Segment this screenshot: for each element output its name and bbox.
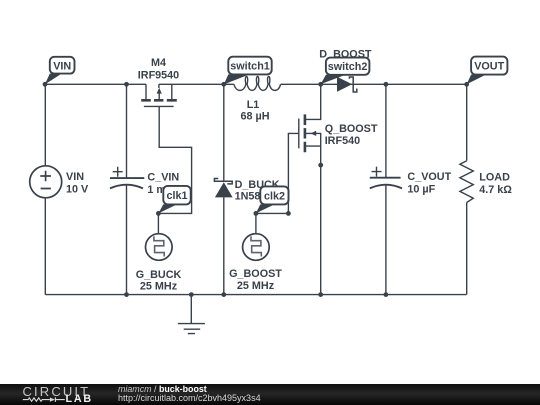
svg-text:clk1: clk1 [166, 190, 187, 202]
svg-text:VIN: VIN [53, 60, 71, 72]
svg-text:25 MHz: 25 MHz [237, 280, 275, 292]
svg-text:clk2: clk2 [264, 191, 285, 203]
svg-text:10 V: 10 V [66, 183, 89, 195]
svg-text:IRF9540: IRF9540 [138, 69, 179, 81]
svg-text:IRF540: IRF540 [325, 135, 360, 147]
svg-text:M4: M4 [151, 57, 166, 69]
svg-text:Q_BOOST: Q_BOOST [325, 123, 378, 135]
svg-text:VOUT: VOUT [474, 61, 504, 73]
svg-text:G_BOOST: G_BOOST [229, 268, 282, 280]
svg-text:68 µH: 68 µH [240, 110, 269, 122]
svg-text:10 µF: 10 µF [407, 183, 435, 195]
svg-text:switch2: switch2 [328, 61, 368, 73]
svg-text:LOAD: LOAD [479, 171, 510, 183]
svg-text:C_VIN: C_VIN [147, 171, 179, 183]
svg-text:4.7 kΩ: 4.7 kΩ [479, 184, 512, 196]
svg-text:G_BUCK: G_BUCK [136, 269, 182, 281]
svg-text:L1: L1 [247, 99, 260, 111]
svg-text:25 MHz: 25 MHz [140, 280, 178, 292]
svg-text:switch1: switch1 [230, 61, 270, 73]
svg-text:C_VOUT: C_VOUT [407, 171, 451, 183]
svg-text:VIN: VIN [66, 171, 84, 183]
